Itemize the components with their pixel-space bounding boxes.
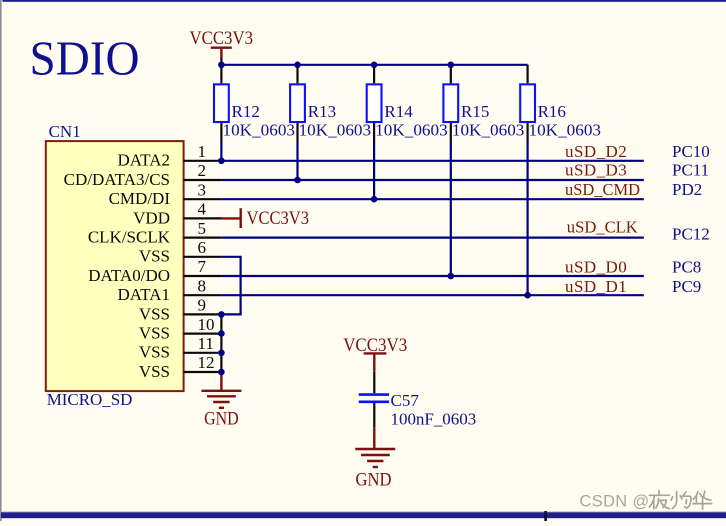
svg-text:DATA0/DO: DATA0/DO — [88, 266, 170, 285]
svg-text:CN1: CN1 — [49, 122, 81, 141]
svg-text:VDD: VDD — [133, 208, 170, 227]
svg-text:8: 8 — [198, 276, 207, 295]
svg-text:PC9: PC9 — [672, 277, 701, 296]
svg-text:R12: R12 — [232, 102, 260, 121]
svg-text:9: 9 — [198, 296, 207, 315]
svg-text:CLK/SCLK: CLK/SCLK — [88, 228, 171, 247]
svg-text:10K_0603: 10K_0603 — [529, 121, 602, 140]
svg-text:CMD/DI: CMD/DI — [109, 189, 171, 208]
svg-text:10K_0603: 10K_0603 — [223, 121, 296, 140]
svg-text:VCC3V3: VCC3V3 — [247, 208, 310, 229]
svg-text:DATA1: DATA1 — [118, 285, 170, 304]
svg-text:R15: R15 — [461, 102, 489, 121]
svg-text:MICRO_SD: MICRO_SD — [47, 390, 133, 409]
svg-text:10: 10 — [198, 315, 215, 334]
svg-text:uSD_D3: uSD_D3 — [565, 161, 627, 180]
svg-text:uSD_D2: uSD_D2 — [565, 142, 627, 161]
svg-text:CD/DATA3/CS: CD/DATA3/CS — [64, 170, 170, 189]
svg-text:12: 12 — [198, 353, 215, 372]
svg-text:GND: GND — [204, 408, 239, 429]
svg-text:PC12: PC12 — [672, 225, 710, 244]
svg-text:R16: R16 — [538, 102, 566, 121]
svg-text:C57: C57 — [391, 391, 420, 410]
svg-text:GND: GND — [356, 470, 392, 491]
svg-text:VSS: VSS — [139, 304, 170, 323]
svg-text:PC8: PC8 — [672, 258, 701, 277]
svg-text:VSS: VSS — [139, 362, 170, 381]
svg-text:DATA2: DATA2 — [118, 151, 170, 170]
svg-text:VCC3V3: VCC3V3 — [343, 335, 407, 356]
svg-text:PC10: PC10 — [672, 142, 710, 161]
svg-text:10K_0603: 10K_0603 — [452, 121, 525, 140]
svg-text:7: 7 — [198, 257, 207, 276]
svg-text:PD2: PD2 — [672, 180, 702, 199]
svg-text:VSS: VSS — [139, 247, 170, 266]
svg-text:VSS: VSS — [139, 343, 170, 362]
svg-text:uSD_CLK: uSD_CLK — [567, 217, 639, 236]
svg-text:11: 11 — [198, 334, 214, 353]
svg-text:SDIO: SDIO — [30, 31, 140, 86]
svg-text:10K_0603: 10K_0603 — [375, 121, 448, 140]
svg-text:4: 4 — [198, 200, 207, 219]
svg-text:100nF_0603: 100nF_0603 — [391, 409, 477, 428]
svg-text:5: 5 — [198, 219, 207, 238]
svg-text:R13: R13 — [308, 102, 336, 121]
svg-text:1: 1 — [198, 142, 207, 161]
svg-text:VCC3V3: VCC3V3 — [190, 28, 254, 49]
svg-text:R14: R14 — [384, 102, 413, 121]
svg-text:uSD_D1: uSD_D1 — [565, 277, 627, 296]
svg-text:10K_0603: 10K_0603 — [299, 121, 372, 140]
svg-text:2: 2 — [198, 161, 207, 180]
svg-text:CSDN @: CSDN @ — [580, 492, 650, 510]
svg-text:uSD_D0: uSD_D0 — [565, 258, 627, 277]
svg-text:PC11: PC11 — [672, 161, 709, 180]
svg-text:VSS: VSS — [139, 324, 170, 343]
svg-text:uSD_CMD: uSD_CMD — [565, 180, 640, 199]
svg-text:3: 3 — [198, 180, 207, 199]
svg-text:6: 6 — [198, 238, 207, 257]
